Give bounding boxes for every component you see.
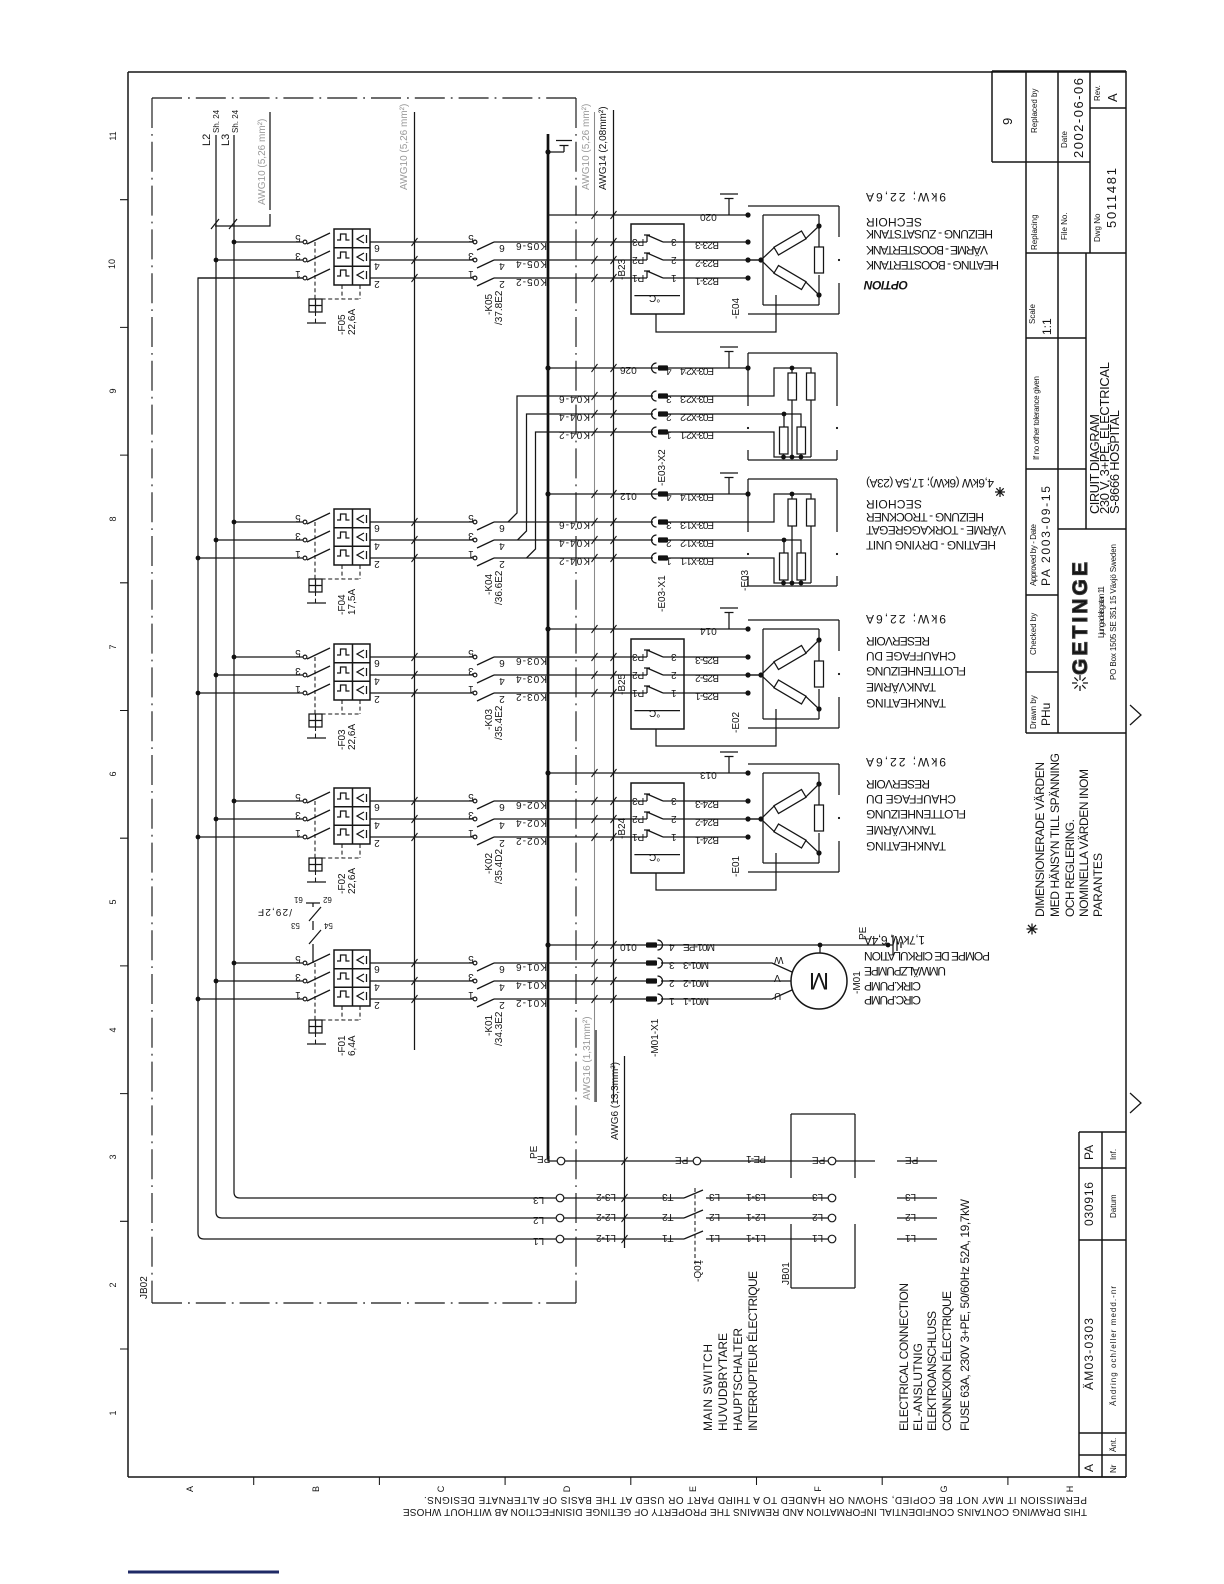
svg-text:22,6A: 22,6A [347,309,358,335]
svg-text:HAUPTSCHALTER: HAUPTSCHALTER [731,1328,745,1431]
svg-text:RESERVOIR: RESERVOIR [866,634,930,648]
svg-text:2: 2 [671,669,677,680]
svg-text:AWG10 (5,26 mm²): AWG10 (5,26 mm²) [399,104,410,190]
svg-text:4: 4 [499,540,505,551]
svg-text:VÄRME - TORKAGGREGAT: VÄRME - TORKAGGREGAT [865,523,1006,537]
PE wire to E03-X2 [548,367,748,369]
svg-text:EL-ANSLUTNIG: EL-ANSLUTNIG [911,1343,925,1431]
svg-text:3: 3 [295,809,301,820]
svg-text:Scale: Scale [1028,303,1037,324]
svg-text:-E03-X2: -E03-X2 [657,449,668,486]
svg-text:1: 1 [669,995,675,1006]
svg-text:B: B [311,1486,321,1492]
svg-text:AWG6 (13,3mm²): AWG6 (13,3mm²) [610,1062,621,1140]
svg-text:/29,2F: /29,2F [258,906,292,917]
svg-text:Rev.: Rev. [1093,85,1102,101]
svg-text:File No.: File No. [1060,212,1069,240]
phase rows to main switch [564,1198,684,1239]
svg-text:C: C [436,1485,446,1492]
-E02 vertical resistor [818,640,820,709]
PE row terminals [557,1157,565,1165]
heater bank E03-X2 frame [748,353,837,460]
svg-text:-E03: -E03 [740,569,751,591]
svg-text:P2: P2 [632,813,645,824]
supply stubs right [897,1198,937,1239]
svg-text:OPTION: OPTION [864,278,908,292]
svg-text:M01-PE: M01-PE [683,941,715,952]
svg-text:9: 9 [1000,118,1015,125]
svg-text:9: 9 [108,388,118,393]
svg-text:T2: T2 [662,1211,674,1222]
svg-text:FUSE 63A, 230V 3+PE, 50/60Hz 5: FUSE 63A, 230V 3+PE, 50/60Hz 52A, 19,7kW [958,1198,972,1431]
wire gauge line AWG14 [613,110,615,1102]
svg-text:P3: P3 [632,651,645,662]
bus tap junctions [232,655,237,660]
svg-text:7: 7 [108,644,118,649]
contactor contacts -K01 [473,961,494,1007]
svg-text:K04-6: K04-6 [559,519,590,530]
wire gauge line AWG10 mid [414,112,416,1050]
contactor contacts -K04 [473,520,494,566]
svg-text:L1: L1 [905,1232,917,1243]
E03 note asterisk [995,487,1005,497]
-E02 connection dots [745,626,750,631]
svg-text:E: E [688,1486,698,1492]
svg-text:SECHOIR: SECHOIR [866,215,922,229]
svg-text:5: 5 [468,791,474,802]
svg-text:1,7kW, 6,4A: 1,7kW, 6,4A [864,933,925,947]
svg-text:6: 6 [374,657,380,668]
svg-text:Sh. 24: Sh. 24 [212,109,221,133]
svg-text:L1-2: L1-2 [596,1232,616,1243]
svg-text:1:1: 1:1 [1040,318,1054,335]
JB01 terminals [828,1157,836,1165]
svg-text:22,6A: 22,6A [347,724,358,750]
svg-text:RESERVOIR: RESERVOIR [866,777,930,791]
heater -E01 outer frame [748,764,839,872]
svg-text:Nr: Nr [1109,1464,1118,1473]
B23 wires thermostat to heater [684,242,763,278]
page frame [128,72,1126,1477]
svg-text:013: 013 [700,769,717,780]
-E04 vertical resistor [818,226,820,295]
svg-text:CIRK.PUMP: CIRK.PUMP [864,979,921,993]
earth symbol at motor [886,943,891,948]
svg-text:A: A [1082,1464,1096,1472]
branch -F05 wires bus to breaker [198,242,305,278]
svg-text:B23-3: B23-3 [695,239,719,250]
svg-text:NOMINELLA VÄRDEN INOM: NOMINELLA VÄRDEN INOM [1077,769,1091,917]
svg-text:B23-2: B23-2 [695,257,719,268]
svg-text:L2: L2 [812,1211,824,1222]
svg-text:5: 5 [295,512,301,523]
svg-text:020: 020 [700,211,717,222]
svg-text:62: 62 [322,895,331,904]
svg-text:E03-X2:2: E03-X2:2 [680,411,714,422]
svg-text:Ändring och/eller medd.-nr: Ändring och/eller medd.-nr [1109,1286,1118,1406]
svg-text:2: 2 [669,977,675,988]
svg-text:4: 4 [499,675,505,686]
svg-text:5: 5 [468,232,474,243]
svg-text:Datum: Datum [1109,1194,1118,1218]
svg-text:E03-X2:4: E03-X2:4 [680,365,714,376]
svg-text:L1: L1 [533,1235,545,1246]
svg-text:5: 5 [468,512,474,523]
phase row terminals left [556,1194,564,1202]
svg-text:P1: P1 [632,831,645,842]
svg-text:B24-1: B24-1 [695,834,719,845]
svg-text:-E03-X1: -E03-X1 [657,575,668,612]
wires contactor to thermostat -B24 [494,801,631,837]
branch -F03 wires breaker to contactor [370,657,473,693]
branch -F04 wires bus to breaker [198,522,305,558]
svg-text:3: 3 [295,250,301,261]
svg-text:2002-06-06: 2002-06-06 [1071,78,1086,158]
svg-text:L3: L3 [533,1194,545,1205]
svg-text:TANKHEATING: TANKHEATING [866,696,946,710]
svg-text:F: F [813,1486,823,1492]
branch -F05 wires breaker to contactor [370,242,473,278]
svg-text:MED HÄNSYN TILL SPÄNNING: MED HÄNSYN TILL SPÄNNING [1048,753,1062,917]
svg-text:4: 4 [108,1027,118,1032]
bus L1 [198,278,560,1239]
fold marks [1130,705,1141,1113]
svg-text:B25-3: B25-3 [695,654,719,665]
svg-text:5011481: 5011481 [1104,168,1119,228]
svg-text:P1: P1 [632,687,645,698]
svg-text:3: 3 [108,1154,118,1159]
svg-text:3: 3 [671,236,677,247]
bus L3 [234,135,560,1198]
-E04 connection dots [745,212,750,217]
PE bus junction dots [545,149,550,154]
svg-text:PE-1: PE-1 [746,1153,766,1164]
svg-text:6: 6 [499,801,505,812]
svg-text:TANKVÄRME: TANKVÄRME [866,823,936,837]
bank E03-X1 PE connection dot [745,491,750,496]
PE wire to -E04 [548,214,748,216]
svg-text:E03-X2:3: E03-X2:3 [680,393,714,404]
revision table grid [1079,1132,1126,1477]
svg-text:3: 3 [295,971,301,982]
svg-text:B25-1: B25-1 [695,690,719,701]
svg-text:1: 1 [108,1410,118,1415]
svg-text:Dwg No: Dwg No [1093,213,1102,242]
svg-text:9kW; 22,6A: 9kW; 22,6A [866,755,946,769]
auxiliary contact /29.2F [306,903,321,963]
circuit breaker -F04 [303,509,370,603]
border zone ticks bottom [254,1477,1008,1485]
svg-text:ELECTRICAL CONNECTION: ELECTRICAL CONNECTION [897,1283,911,1431]
terminal block M01-X1 [646,940,663,950]
svg-text:AWG16 (1,31mm²): AWG16 (1,31mm²) [582,1016,593,1100]
svg-text:-M01-X1: -M01-X1 [650,1018,661,1057]
svg-text:L2: L2 [533,1214,545,1225]
svg-text:E03-X1:4: E03-X1:4 [680,491,714,502]
svg-text:2: 2 [374,278,380,289]
svg-text:K04-4: K04-4 [559,537,590,548]
svg-text:P1: P1 [632,272,645,283]
svg-text:8: 8 [108,516,118,521]
-B25 capillary tube [656,709,776,746]
svg-text:2: 2 [666,411,672,422]
svg-text:L3: L3 [220,134,232,146]
svg-text:CONNEXION ÉLECTRIQUE: CONNEXION ÉLECTRIQUE [939,1291,954,1431]
svg-text:2: 2 [374,999,380,1010]
svg-text:2: 2 [499,999,505,1010]
svg-text:6: 6 [374,242,380,253]
B25 wires thermostat to heater [684,657,763,693]
svg-text:HEIZUNG - TROCKNER: HEIZUNG - TROCKNER [866,510,984,524]
blue mark bottom left [128,1571,279,1574]
branch -F02 wires bus to breaker [198,801,305,837]
svg-text:FLOTTENHEIZUNG: FLOTTENHEIZUNG [866,807,966,821]
PE wire to -E02 [548,628,748,630]
svg-text:°C: °C [649,707,660,718]
svg-text:M01-2: M01-2 [683,977,709,988]
svg-text:4: 4 [374,981,380,992]
svg-text:U: U [774,990,781,1001]
svg-text:V: V [774,972,781,983]
earth symbol at -E02 [720,608,738,629]
svg-text:3: 3 [295,665,301,676]
svg-text:H: H [1065,1486,1075,1493]
svg-text:OCH REGLERING.: OCH REGLERING. [1063,819,1077,917]
svg-text:THIS DRAWING CONTAINS CONFIDEN: THIS DRAWING CONTAINS CONFIDENTIAL INFOR… [403,1506,1087,1517]
junction box JB01 [791,1114,855,1288]
svg-text:L2: L2 [709,1211,721,1222]
svg-text:INTERRUPTEUR ÉLECTRIQUE: INTERRUPTEUR ÉLECTRIQUE [745,1271,760,1431]
svg-text:5: 5 [295,791,301,802]
svg-text:1: 1 [295,548,301,559]
bus tap junctions [232,799,237,804]
main switch Q01 [684,1190,832,1239]
svg-text:1: 1 [468,989,474,1000]
svg-text:4: 4 [374,260,380,271]
E03 upper bank riser jogs [508,396,653,558]
svg-text:JB01: JB01 [781,1262,792,1285]
-E02 diagonal resistor upper [774,646,806,670]
svg-text:3: 3 [666,519,672,530]
-B23 capillary tube [656,295,776,332]
svg-text:4: 4 [669,941,675,952]
svg-text:HUVUDBRYTARE: HUVUDBRYTARE [716,1333,730,1431]
border zone ticks left [120,200,128,1349]
heater -E02 outer frame [748,620,839,728]
svg-text:4: 4 [374,675,380,686]
svg-text:M: M [809,967,829,994]
svg-text:17,5A: 17,5A [347,589,358,615]
PE bus to PE row corner [548,1159,557,1161]
svg-text:E03-X1:3: E03-X1:3 [680,519,714,530]
thermostat -B25 [631,639,684,729]
branch -F03 wires bus to breaker [198,657,305,693]
svg-text:/34.3E2: /34.3E2 [494,1011,505,1046]
svg-text:PARANTES: PARANTES [1091,853,1105,917]
svg-text:PERMISSION IT MAY NOT BE COPIE: PERMISSION IT MAY NOT BE COPIED, SHOWN O… [424,1494,1087,1505]
svg-text:3: 3 [671,651,677,662]
svg-text:2: 2 [499,558,505,569]
-E01 diagonal resistor upper [774,790,806,814]
svg-text:2: 2 [374,693,380,704]
PE bus [547,134,550,1159]
svg-text:026: 026 [620,364,637,375]
svg-text:PE: PE [812,1154,826,1165]
-E04 diagonal resistor upper [774,231,806,255]
bank E03-X2 internal wiring [661,368,811,457]
-E01 connection dots [745,770,750,775]
svg-text:1: 1 [295,827,301,838]
svg-text:Sh. 24: Sh. 24 [231,109,240,133]
svg-text:B24-2: B24-2 [695,816,719,827]
svg-text:D: D [562,1485,572,1492]
svg-text:2: 2 [108,1282,118,1287]
svg-text:FLOTTENHEIZUNG: FLOTTENHEIZUNG [866,664,966,678]
contactor contacts -K02 [473,799,494,845]
svg-text:53: 53 [290,921,299,930]
svg-text:61: 61 [293,895,302,904]
PE wire to E03-X1 [548,493,748,495]
E03-X1 terminals [652,489,669,499]
svg-text:/35.4E2: /35.4E2 [494,705,505,740]
bus tap junctions [232,961,237,966]
heater -E04 outer frame [748,206,839,314]
svg-text:PHu: PHu [1039,703,1053,726]
svg-text:S-8666 HOSPITAL: S-8666 HOSPITAL [1107,410,1122,514]
svg-text:3: 3 [671,795,677,806]
note asterisk [1027,924,1038,935]
gauge slashes [412,238,418,1003]
svg-text:4: 4 [374,540,380,551]
svg-text:K04-2: K04-2 [559,429,590,440]
svg-text:6: 6 [499,522,505,533]
svg-text:Änt.: Änt. [1109,1438,1118,1452]
-B24 capillary tube [656,853,776,890]
svg-text:2: 2 [499,693,505,704]
contactor contacts -K03 [473,655,494,701]
svg-text:9kW; 22,6A: 9kW; 22,6A [866,190,946,204]
svg-text:3: 3 [666,393,672,404]
svg-text:L1: L1 [709,1232,721,1243]
svg-text:UMWÄLZPUMPE: UMWÄLZPUMPE [864,964,946,978]
svg-text:1: 1 [666,429,672,440]
svg-text:POMPE DE CIRKULATION: POMPE DE CIRKULATION [864,949,990,963]
svg-text:E03-X1:2: E03-X1:2 [680,537,714,548]
svg-text:A: A [185,1486,195,1492]
wires contactor to thermostat -B23 [494,242,631,278]
svg-text:6: 6 [374,801,380,812]
svg-text:5: 5 [468,953,474,964]
wire gauge line AWG10 gray [594,112,596,1102]
svg-text:P2: P2 [632,254,645,265]
svg-text:/37.8E2: /37.8E2 [494,290,505,325]
svg-text:Drawn by: Drawn by [1029,695,1038,729]
svg-text:6: 6 [499,963,505,974]
svg-text:4: 4 [499,260,505,271]
PE row wire [557,1160,937,1162]
svg-text:PE: PE [905,1154,919,1165]
svg-text:PO Box 1505 SE 351 15 Växjö Sw: PO Box 1505 SE 351 15 Växjö Sweden [1109,544,1118,680]
svg-text:1: 1 [671,272,677,283]
svg-text:2: 2 [499,837,505,848]
svg-text:Date: Date [1060,131,1069,148]
svg-text:Checked by: Checked by [1029,613,1038,655]
svg-text:4: 4 [499,981,505,992]
svg-text:CIRC.PUMP: CIRC.PUMP [864,993,921,1007]
svg-text:2: 2 [499,278,505,289]
-E01 vertical resistor [818,784,820,853]
svg-text:°C: °C [649,851,660,862]
svg-text:-B25: -B25 [617,673,628,695]
svg-text:VÄRME - BOOSTERTANK: VÄRME - BOOSTERTANK [866,243,988,257]
svg-text:M01-3: M01-3 [683,959,709,970]
svg-text:6: 6 [499,242,505,253]
svg-text:SECHOIR: SECHOIR [866,497,922,511]
svg-text:HEATING - BOOSTERTANK: HEATING - BOOSTERTANK [866,258,999,272]
svg-text:L3: L3 [709,1191,721,1202]
svg-text:3: 3 [468,809,474,820]
svg-text:1: 1 [295,989,301,1000]
svg-text:K04-2: K04-2 [559,555,590,566]
thermostat -B24 [631,783,684,873]
heater -E02 body outline [763,629,819,719]
bus L2 [216,135,560,1218]
svg-text:L1-1: L1-1 [746,1232,766,1243]
svg-text:°C: °C [649,292,660,303]
svg-text:PA: PA [1082,1145,1096,1160]
svg-text:010: 010 [620,941,637,952]
svg-text:PA 2003-09-15: PA 2003-09-15 [1039,486,1053,586]
svg-text:1: 1 [468,548,474,559]
svg-text:4: 4 [499,819,505,830]
svg-text:4: 4 [666,365,672,376]
svg-text:P2: P2 [632,669,645,680]
title block grid [992,71,1126,1477]
svg-text:10: 10 [107,259,117,269]
svg-text:2: 2 [374,558,380,569]
svg-text:E03-X1:1: E03-X1:1 [680,555,714,566]
svg-text:L2-2: L2-2 [596,1211,616,1222]
E03-X2 terminals [652,363,669,373]
svg-text:G: G [939,1485,949,1492]
svg-text:L2: L2 [905,1211,917,1222]
branch -F01 wires bus to breaker [198,963,305,999]
bank E03-X1 junction dots [790,492,795,497]
heater -E04 body outline [763,215,819,305]
svg-text:AWG14 (2,08mm²): AWG14 (2,08mm²) [598,106,609,190]
svg-text:4,6kW (6kW); 17,5A (23A): 4,6kW (6kW); 17,5A (23A) [866,476,994,490]
circuit breaker -F03 [303,644,370,738]
svg-text:Replaced by: Replaced by [1030,89,1039,133]
svg-text:3: 3 [295,530,301,541]
svg-text:6: 6 [108,771,118,776]
svg-text:-B24: -B24 [617,817,628,839]
bus tap junctions [232,520,237,525]
bank E03-X2 resistors [788,373,797,400]
svg-text:TANKVÄRME: TANKVÄRME [866,680,936,694]
svg-text:-E02: -E02 [731,711,742,733]
svg-text:2: 2 [374,837,380,848]
svg-text:-M01: -M01 [852,971,863,994]
svg-text:B24-3: B24-3 [695,798,719,809]
bus tap junctions [232,240,237,245]
svg-text:T3: T3 [662,1191,674,1202]
svg-text:1: 1 [468,683,474,694]
-E01 delta apex feed [748,818,761,820]
earth symbol at -E04 [720,194,738,215]
svg-text:CHAUFFAGE DU: CHAUFFAGE DU [866,649,956,663]
svg-text:6,4A: 6,4A [347,1035,358,1056]
